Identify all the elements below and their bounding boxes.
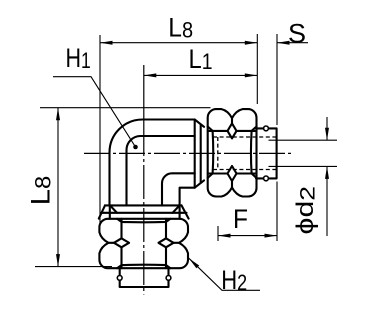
right nut chamfer diamond upper xyxy=(228,123,237,138)
extension line top for vertical L8 xyxy=(40,107,211,109)
svg-text:F: F xyxy=(233,204,248,234)
extension line left of body for L8 top xyxy=(99,35,101,225)
dimension line phi-d2 lower segment xyxy=(326,166,328,236)
bottom collar right chamfer xyxy=(173,205,180,212)
extension line for F left xyxy=(217,226,219,241)
bottom stub sleeve xyxy=(120,268,169,287)
right nut facet line lower xyxy=(208,172,257,174)
right nut facet line upper xyxy=(208,130,257,132)
bottom nut chamfer diamond left xyxy=(114,238,129,247)
arrowhead L8 top left xyxy=(100,41,113,45)
right stub gauge circle top xyxy=(264,126,269,131)
leader dot H1 xyxy=(133,145,138,150)
bottom nut top chamfer arc xyxy=(117,219,170,222)
bottom nut chamfer diamond right xyxy=(159,238,174,247)
extension line phi-d2 bottom xyxy=(269,165,338,167)
dimension line L8 top xyxy=(100,42,257,44)
dimension line L1 xyxy=(144,74,257,76)
extension line at nut right edge xyxy=(256,34,258,104)
svg-text:H2: H2 xyxy=(221,265,247,295)
elbow body outer contour xyxy=(110,120,195,206)
right collar bottom chamfer xyxy=(195,180,204,187)
dimension line S leader xyxy=(277,42,308,44)
arrowhead L8 vertical bottom xyxy=(56,254,60,267)
arrowhead F right xyxy=(265,234,278,238)
bottom collar right slant xyxy=(182,205,189,218)
right nut chamfer diamond lower xyxy=(228,166,237,181)
elbow body inner top line and inner arc xyxy=(127,136,195,206)
right nut left chamfer arc xyxy=(208,127,214,178)
svg-text:L1: L1 xyxy=(189,44,213,74)
right stub sleeve xyxy=(256,128,277,178)
extension line at stub end face xyxy=(276,34,278,241)
bottom nut N2 outline xyxy=(99,219,188,268)
arrowhead L8 vertical top xyxy=(56,108,60,121)
arrowhead L1 right xyxy=(245,73,257,77)
svg-text:ϕd2: ϕd2 xyxy=(292,186,320,235)
dimension line L8 vertical xyxy=(57,108,59,267)
leader line H1 xyxy=(53,77,136,147)
centerline vertical solid extension to L1 xyxy=(143,65,145,122)
bottom nut bottom chamfer arc xyxy=(117,265,170,269)
bottom nut facet line right xyxy=(165,219,167,268)
bottom collar inner line xyxy=(102,212,187,214)
right collar inner line xyxy=(200,125,202,184)
arrowhead F left xyxy=(218,234,231,238)
extension line bottom for vertical L8 xyxy=(35,266,112,268)
right nut N1 outline xyxy=(208,109,257,196)
elbow body inner fillet xyxy=(162,173,195,205)
svg-text:L8: L8 xyxy=(26,176,56,206)
dimension line F xyxy=(218,235,277,237)
svg-text:L8: L8 xyxy=(168,12,193,42)
centerline vertical axis xyxy=(143,122,145,295)
bottom stub gauge circle left xyxy=(117,276,122,281)
arrowhead phi-d2 up xyxy=(325,166,329,179)
arrowhead H2 leader xyxy=(189,258,199,268)
bottom collar left slant xyxy=(99,205,105,218)
leader line H2 xyxy=(189,258,260,290)
bottom nut notch ticks xyxy=(108,242,179,244)
bottom collar tube edge continuations xyxy=(110,205,180,218)
svg-text:H1: H1 xyxy=(66,43,91,73)
dimension line phi-d2 upper segment xyxy=(326,117,328,140)
arrowhead L1 left xyxy=(144,73,157,77)
bottom collar left chamfer xyxy=(110,205,117,212)
arrowhead S xyxy=(277,41,290,45)
bottom stub gauge circle right xyxy=(166,276,171,281)
bottom collar top face xyxy=(105,204,182,206)
svg-text:S: S xyxy=(288,19,306,49)
right nut notch ticks xyxy=(231,118,233,187)
arrowhead L8 top right xyxy=(245,41,257,45)
right collar top chamfer xyxy=(195,120,204,127)
centerline horizontal axis xyxy=(84,152,291,154)
arrowhead phi-d2 down xyxy=(325,128,329,141)
extension line phi-d2 top xyxy=(269,139,338,141)
right stub gauge circle bottom xyxy=(264,176,269,181)
right nut right chamfer arc xyxy=(251,127,257,178)
bottom nut facet line left xyxy=(120,219,122,268)
hidden thread lines inside right nut xyxy=(213,137,277,170)
